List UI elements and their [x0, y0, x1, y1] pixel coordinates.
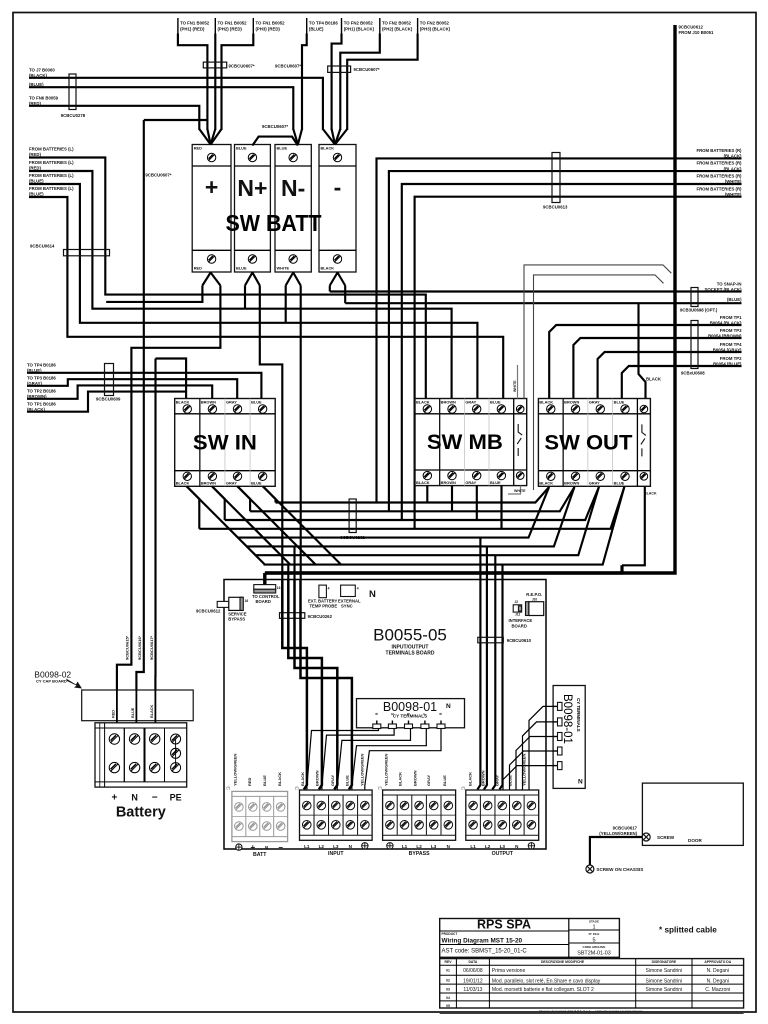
svg-text:FROM BATTERIES (R): FROM BATTERIES (R)	[696, 148, 742, 153]
svg-text:02: 02	[446, 979, 450, 983]
svg-text:BOARD: BOARD	[256, 599, 271, 604]
wire V into module N- top	[293, 129, 298, 145]
wire SW IN bottom terminal 1 to upper bus	[187, 486, 200, 529]
label FROM BATTERIES (L) (BLUE)	[29, 173, 74, 184]
svg-text:RPS SPA: RPS SPA	[477, 918, 531, 932]
wire TO TP4 blue to SW IN	[27, 373, 261, 399]
terminal pin 3 mid B0098-01	[405, 712, 413, 729]
label TO TP1 B0186 BLACK	[27, 401, 56, 412]
svg-text:YELLOW/GREEN: YELLOW/GREEN	[360, 753, 365, 786]
svg-text:GRAY: GRAY	[226, 481, 237, 486]
svg-text:16: 16	[277, 586, 281, 590]
wire module N- bottom-left to bus	[285, 286, 287, 323]
label TO TP4 B0186 BLUE	[27, 362, 56, 373]
wire FROM TP3 to SW OUT	[573, 338, 741, 399]
svg-text:9CBxU0608: 9CBxU0608	[681, 371, 705, 376]
label 9CBCU0617 YELLOW/GREEN	[599, 826, 637, 837]
svg-text:DESCRIZIONE MODIFICHE: DESCRIZIONE MODIFICHE	[541, 960, 585, 964]
wire V from module - bottom	[330, 273, 338, 286]
svg-text:BYPASS: BYPASS	[228, 617, 245, 622]
svg-text:FROM TP4: FROM TP4	[720, 342, 742, 347]
wire battery blue link vertical	[136, 120, 143, 690]
thin aux wire A from SW MB switch column to feeder	[524, 265, 671, 399]
box DOOR	[642, 783, 743, 845]
ferrite 9CBCU0614	[64, 250, 110, 256]
thin aux wire B to feeder	[534, 275, 664, 490]
svg-text:(*): (*)	[378, 786, 381, 790]
svg-text:5: 5	[592, 938, 595, 944]
svg-text:R.E.P.O.: R.E.P.O.	[526, 592, 542, 597]
lower bus l1	[237, 487, 549, 538]
wire SW IN bottom terminal 3 diagonal to lower bus	[237, 486, 315, 564]
svg-text:9CBCU0607*: 9CBCU0607*	[229, 64, 255, 69]
board B0055-05 outline	[224, 580, 546, 850]
svg-text:OUTPUT: OUTPUT	[492, 851, 514, 857]
svg-text:PRODUCT: PRODUCT	[442, 932, 458, 936]
board B0098-02 CY CAP BOARD	[34, 670, 193, 721]
wire output feed 2	[484, 546, 487, 789]
svg-text:N+: N+	[237, 175, 267, 201]
board entry wire 3 from lower bus l2	[293, 546, 295, 579]
connector REPO	[526, 592, 544, 616]
svg-text:BROWN: BROWN	[564, 400, 579, 405]
svg-text:J12: J12	[515, 613, 521, 617]
svg-text:CY TERMINALS: CY TERMINALS	[576, 698, 581, 732]
svg-text:BLACK: BLACK	[644, 492, 657, 496]
svg-text:SW BATT: SW BATT	[226, 210, 322, 236]
ferrite 9CBCU0278	[69, 74, 76, 110]
ferrite 9CBCU0262 vertical	[349, 499, 356, 533]
wire TO TP2 brown to SW IN	[27, 385, 212, 398]
svg-text:04: 04	[446, 996, 450, 1000]
svg-text:YELLOW/GREEN: YELLOW/GREEN	[384, 753, 389, 786]
svg-text:BROWN: BROWN	[201, 400, 216, 405]
connector SERVICE BYPASS	[217, 597, 248, 621]
svg-text:9CBCU0607*: 9CBCU0607*	[354, 67, 380, 72]
svg-text:GRAY: GRAY	[495, 774, 500, 786]
wire output feed 1	[477, 538, 480, 790]
svg-text:C. Mazzoni: C. Mazzoni	[705, 987, 730, 993]
svg-text:APPROVATO DA: APPROVATO DA	[704, 960, 731, 964]
label FROM BATTERIES (L) (BLUE)	[29, 186, 74, 197]
wire SW IN bottom terminal 3 to upper bus	[237, 486, 250, 511]
wire from batteries L blue 1 to SW MB	[29, 184, 477, 399]
svg-text:BROWN: BROWN	[564, 481, 579, 486]
svg-text:CODE ARCHIVE: CODE ARCHIVE	[583, 945, 606, 949]
svg-text:GRAY: GRAY	[330, 774, 335, 786]
svg-text:TO TP4 B0186: TO TP4 B0186	[309, 21, 338, 26]
svg-text:BLACK: BLACK	[150, 704, 154, 718]
label TO J7 B0060 BLACK	[29, 68, 55, 79]
terminal strip BYPASS	[383, 790, 456, 857]
terminal pin 2 right B0098-01	[554, 718, 563, 726]
wire snap-in blue	[345, 302, 741, 304]
svg-text:(BLUE): (BLUE)	[29, 191, 44, 196]
svg-text:DOOR: DOOR	[688, 838, 702, 843]
rotated color labels above BATT strip	[233, 753, 282, 786]
svg-text:RED: RED	[247, 777, 252, 786]
label FROM BATTERIES (L) (RED)	[29, 146, 74, 157]
svg-text:9CBCU0616*: 9CBCU0616*	[137, 635, 142, 660]
svg-text:F: F	[423, 713, 427, 715]
connector TO CONTROL BOARD	[252, 585, 281, 604]
svg-text:RED: RED	[194, 266, 202, 271]
ferrite 9CBCU0613	[552, 153, 560, 203]
svg-text:L2: L2	[416, 844, 422, 849]
svg-text:9CBCU0614: 9CBCU0614	[30, 244, 55, 249]
svg-text:BLUE: BLUE	[277, 146, 288, 151]
svg-text:11/03/13: 11/03/13	[463, 987, 482, 993]
board entry wire 2 from lower bus l4	[287, 565, 289, 580]
svg-text:(YELLOW/GREEN): (YELLOW/GREEN)	[599, 831, 637, 836]
svg-text:BLUE: BLUE	[614, 481, 625, 486]
upper bus u3	[225, 487, 599, 520]
svg-text:9CBCU0610: 9CBCU0610	[507, 638, 532, 643]
svg-text:J10: J10	[532, 597, 538, 601]
svg-text:4: 4	[328, 587, 330, 591]
svg-text:9CBCU0617*: 9CBCU0617*	[149, 635, 154, 660]
svg-text:BLUE: BLUE	[131, 707, 135, 718]
wire output feed 4	[500, 565, 503, 790]
wire SW IN bottom terminal 4 diagonal to lower bus	[263, 486, 341, 564]
wire from batteries L red 1 to SW MB	[29, 158, 426, 399]
svg-text:L2: L2	[485, 844, 491, 849]
svg-text:GRAY: GRAY	[465, 400, 476, 405]
svg-text:19/01/12: 19/01/12	[463, 978, 483, 984]
svg-text:DATA: DATA	[468, 960, 477, 964]
svg-text:N: N	[446, 703, 451, 710]
wire FROM TP2 to SW OUT	[622, 366, 742, 399]
svg-text:9CBCU0615*: 9CBCU0615*	[125, 635, 130, 660]
asterisk marks at strip corners	[227, 786, 465, 790]
svg-text:TO TP4 B0186: TO TP4 B0186	[27, 362, 56, 367]
wire TO FN6 red	[29, 106, 199, 130]
rotated color labels above BYPASS strip	[384, 753, 448, 786]
svg-text:1: 1	[592, 925, 595, 931]
svg-text:BLUE: BLUE	[614, 400, 625, 405]
svg-text:N. Degani: N. Degani	[707, 978, 729, 984]
svg-text:BLUE: BLUE	[490, 400, 501, 405]
svg-text:9CBCU0607*: 9CBCU0607*	[262, 124, 288, 129]
wire module N+ bottom-left to bus	[244, 286, 246, 309]
svg-text:STAGE: STAGE	[589, 920, 599, 924]
breaker block SW MB	[415, 399, 527, 486]
svg-text:TO TP1 B0186: TO TP1 B0186	[27, 401, 56, 406]
wire top label PH3 red	[222, 34, 254, 131]
wire SW IN bottom terminal 2 diagonal to lower bus	[212, 486, 290, 564]
svg-text:BROWN: BROWN	[481, 770, 486, 786]
svg-text:TO FN2 B0052: TO FN2 B0052	[420, 21, 450, 26]
svg-text:BLACK: BLACK	[398, 772, 403, 786]
svg-text:(PH2) (RED): (PH2) (RED)	[218, 27, 243, 32]
terminal pin 4 mid B0098-01	[421, 713, 429, 729]
terminal pin 1 mid B0098-01	[373, 712, 381, 729]
terminal strip BATT	[232, 791, 288, 858]
top destination label TO FN1 B0052 (PH2) (RED)	[215, 18, 247, 34]
svg-text:REV: REV	[445, 960, 453, 964]
svg-text:BLACK: BLACK	[176, 400, 190, 405]
svg-text:YELLOW/GREEN: YELLOW/GREEN	[233, 753, 238, 786]
terminal pin 2 mid B0098-01	[388, 713, 396, 729]
wire TO TP1 black to SW IN	[27, 392, 186, 412]
svg-text:(RED): (RED)	[29, 152, 42, 157]
wire right B0098-01 pin 2 to output column	[523, 722, 554, 790]
svg-text:(BLUE): (BLUE)	[727, 297, 742, 302]
wire right B0098-01 pin 4 to output column	[510, 751, 554, 790]
svg-text:BLACK: BLACK	[468, 772, 473, 786]
svg-text:TO FN1 B0052: TO FN1 B0052	[256, 21, 286, 26]
wire output feed 3	[492, 555, 495, 789]
svg-text:BATT: BATT	[253, 852, 267, 858]
wire module + bottom-left to bus	[106, 286, 202, 302]
wire SW IN bottom terminal 1 diagonal to lower bus	[187, 486, 265, 564]
svg-text:BLACK: BLACK	[416, 400, 430, 405]
svg-text:BROWN: BROWN	[201, 481, 216, 486]
wire board entry 4 to input block	[301, 580, 352, 790]
wire blue	[29, 87, 293, 130]
wire SW MB bottom 1 to upper bus	[426, 486, 428, 503]
battery terminal block	[95, 723, 187, 787]
top destination label TO TP4 B0186 (BLUE)	[307, 18, 339, 34]
wire V into module - top	[323, 129, 335, 145]
svg-text:BLUE: BLUE	[251, 481, 262, 486]
label FROM BATTERIES (R) (WHITE)	[696, 174, 742, 185]
battery polarity labels + N - PE	[111, 793, 181, 804]
breaker block SW IN	[175, 399, 276, 487]
svg-text:N: N	[578, 779, 583, 786]
wire from batteries R 2	[389, 171, 742, 511]
wire labels RED BLUE BLACK in cap board	[112, 704, 155, 718]
svg-text:N. Degani: N. Degani	[707, 968, 729, 974]
ferrite 9CBCU0610	[478, 637, 504, 643]
wire board entry 1 to input block	[282, 580, 307, 790]
wire TO FN2 PH2 black	[340, 34, 380, 131]
svg-text:01: 01	[446, 968, 450, 972]
upper bus u2	[250, 487, 574, 511]
svg-text:BLUE: BLUE	[251, 400, 262, 405]
svg-text:N: N	[131, 793, 138, 803]
wire top label PH1 red	[178, 34, 208, 131]
wire thick feeder into control board connector	[263, 573, 266, 585]
svg-text:Mod. parallelo, slot relé, En.: Mod. parallelo, slot relé, En.Share e ca…	[492, 978, 601, 984]
terminal strip INPUT	[300, 790, 373, 857]
top destination label TO FN2 B0052 (PH3) (BLACK)	[418, 18, 451, 34]
svg-text:9CBCU0612: 9CBCU0612	[196, 609, 221, 614]
svg-text:L3: L3	[333, 844, 339, 849]
svg-text:BROWN: BROWN	[441, 400, 456, 405]
svg-text:TO TP3 B0186: TO TP3 B0186	[27, 375, 56, 380]
svg-text:FROM BATTERIES (L): FROM BATTERIES (L)	[29, 186, 74, 191]
svg-text:Simone Sandrini: Simone Sandrini	[646, 987, 683, 993]
svg-text:TO FN2 B0052: TO FN2 B0052	[382, 21, 412, 26]
label TO TP2 B0186 BROWN	[27, 388, 56, 399]
wire mid B0098-01 pin 3 to input column	[337, 729, 410, 790]
wire board entry 2 to input block	[288, 580, 322, 790]
svg-text:FROM J10 B0051: FROM J10 B0051	[679, 30, 714, 35]
svg-text:L3: L3	[431, 844, 437, 849]
svg-text:BLACK: BLACK	[416, 480, 430, 485]
svg-text:AST code: SBMST_15-20_01-C: AST code: SBMST_15-20_01-C	[442, 949, 528, 955]
svg-text:FROM TP2: FROM TP2	[720, 356, 742, 361]
svg-text:+: +	[205, 174, 218, 200]
svg-text:(PH3) (BLACK): (PH3) (BLACK)	[420, 27, 451, 32]
wire SW IN bottom terminal 4 to upper bus	[263, 486, 276, 502]
top destination label TO FN2 B0052 (PH2) (BLACK)	[380, 18, 413, 34]
wire top label PH2 red	[214, 34, 216, 131]
wire battery red link via 9CBCU0607	[144, 119, 208, 121]
wire TO TP3 gray to SW IN	[27, 379, 237, 398]
svg-text:BLACK: BLACK	[176, 481, 190, 486]
top destination label TO FN1 B0052 (PH3) (RED)	[253, 18, 285, 34]
svg-text:(PH1) (RED): (PH1) (RED)	[180, 27, 205, 32]
svg-text:-: -	[334, 174, 342, 200]
wires through cap board to battery block	[116, 690, 118, 723]
label FROM BATTERIES (R) (BLACK)	[696, 161, 742, 172]
label TO FN6 B0059 RED	[29, 96, 59, 107]
wire TO TP4 blue	[302, 34, 307, 131]
svg-text:TO FN2 B0052: TO FN2 B0052	[344, 21, 374, 26]
wire module + bottom-right to battery red	[117, 286, 220, 691]
label TO SNAP-IN SOCKET BLACK	[705, 281, 743, 292]
svg-text:BLACK: BLACK	[646, 377, 662, 382]
svg-text:SW IN: SW IN	[193, 431, 257, 454]
svg-text:GRAY: GRAY	[426, 774, 431, 786]
terminal strip OUTPUT	[466, 790, 539, 857]
svg-text:(BLUE): (BLUE)	[29, 178, 44, 183]
svg-text:9CBCU0607*: 9CBCU0607*	[275, 64, 301, 69]
svg-text:TO FN1 B0052: TO FN1 B0052	[180, 21, 210, 26]
wire V from module N- bottom	[286, 273, 294, 286]
upper bus u4	[199, 487, 624, 529]
svg-text:(PH3) (RED): (PH3) (RED)	[256, 27, 281, 32]
svg-text:−: −	[278, 843, 283, 852]
label FROM TP3 B0054 (BROWN)	[708, 328, 742, 339]
svg-text:SW MB: SW MB	[427, 431, 503, 454]
ferrite 9CBCU0609	[105, 364, 114, 396]
svg-text:FROM BATTERIES (L): FROM BATTERIES (L)	[29, 173, 74, 178]
svg-text:(*): (*)	[295, 786, 298, 790]
connector EXTERNAL SYNC	[338, 585, 361, 609]
terminal pin 1 right B0098-01	[554, 702, 563, 710]
wire SW OUT extra column to thick bus	[622, 487, 645, 565]
svg-text:L1: L1	[304, 844, 310, 849]
svg-text:(PH2) (BLACK): (PH2) (BLACK)	[382, 27, 413, 32]
svg-text:06/06/08: 06/06/08	[463, 968, 483, 974]
upper bus u1	[276, 487, 550, 503]
svg-text:(*): (*)	[462, 786, 465, 790]
svg-text:BROWN: BROWN	[441, 480, 456, 485]
wire from batteries R 3	[402, 184, 742, 520]
terminal pin 5 right B0098-01	[554, 762, 563, 770]
svg-text:BYPASS: BYPASS	[409, 851, 430, 857]
breaker block SW OUT	[538, 399, 650, 487]
rotated color labels above INPUT strip	[300, 753, 365, 786]
label FROM BATTERIES (R) (WHITE)	[696, 186, 742, 197]
svg-text:Disegno di proprietà della R.P: Disegno di proprietà della R.P.S. S.p.A.…	[539, 1009, 643, 1013]
svg-text:BLUE: BLUE	[442, 775, 447, 786]
label FROM TP1 B0054 (BLACK)	[710, 315, 742, 326]
svg-text:GRAY: GRAY	[465, 480, 476, 485]
wire bridge module N+ to N-	[252, 137, 298, 146]
svg-text:SYNC: SYNC	[341, 604, 353, 609]
svg-text:BLACK: BLACK	[539, 481, 553, 486]
svg-text:9CBCU0617: 9CBCU0617	[613, 826, 638, 831]
svg-text:YELLOW/GREEN: YELLOW/GREEN	[522, 753, 527, 786]
rotated color labels above OUTPUT strip	[468, 753, 527, 786]
svg-text:DISEGNATORE: DISEGNATORE	[652, 960, 677, 964]
wire TO J7 black	[29, 78, 323, 130]
svg-text:BLUE: BLUE	[490, 480, 501, 485]
wire right B0098-01 pin 3 to output column	[516, 737, 554, 790]
board B0098-01 CY terminals mid	[357, 699, 465, 728]
label TO TP3 B0186 GRAY	[27, 375, 56, 386]
svg-text:WHITE: WHITE	[513, 380, 517, 392]
title block RPS SPA	[440, 918, 620, 958]
wire mid B0098-01 pin 2 to input column	[322, 729, 394, 790]
wire right B0098-01 pin 1 to output column	[529, 706, 554, 789]
svg-text:+: +	[111, 793, 117, 804]
svg-text:N° FILE: N° FILE	[589, 932, 600, 936]
svg-text:WHITE: WHITE	[514, 489, 526, 493]
label INTERFACE BOARD	[509, 618, 533, 628]
svg-text:BLUE: BLUE	[236, 266, 247, 271]
wire TO FN2 PH1 black	[332, 34, 342, 131]
lower bus l2	[246, 487, 574, 546]
wire from batteries L red 2 to SW MB	[29, 171, 452, 399]
svg-text:GRAY: GRAY	[589, 400, 600, 405]
svg-text:9CB3U0698 (OPT.): 9CB3U0698 (OPT.)	[680, 308, 718, 313]
label FROM BATTERIES (L) (RED)	[29, 160, 74, 171]
svg-text:SW OUT: SW OUT	[544, 431, 632, 454]
svg-text:BLACK: BLACK	[539, 400, 553, 405]
svg-text:BROWN: BROWN	[413, 770, 418, 786]
svg-text:L2: L2	[319, 844, 325, 849]
svg-text:TO SNAP-IN: TO SNAP-IN	[717, 281, 742, 286]
connector J2 interface	[513, 600, 521, 617]
svg-text:WHITE: WHITE	[277, 266, 290, 271]
wire thick bus under blocks	[266, 565, 623, 573]
wire SW MB bottom 4 to upper bus	[500, 486, 502, 529]
screw on door	[642, 833, 650, 841]
svg-text:Prima versione: Prima versione	[492, 968, 526, 974]
svg-text:03: 03	[446, 987, 450, 991]
svg-text:FROM TP1: FROM TP1	[720, 315, 742, 320]
top destination label TO FN2 B0052 (PH1) (BLACK)	[342, 18, 375, 34]
wire module N+ bottom-right to board entry	[260, 286, 283, 580]
svg-text:B0098-01: B0098-01	[383, 700, 437, 714]
wire from batteries R 4	[415, 197, 742, 529]
svg-text:B0098-01: B0098-01	[561, 694, 573, 744]
svg-text:BLACK: BLACK	[321, 146, 335, 151]
svg-text:FROM BATTERIES (R): FROM BATTERIES (R)	[696, 161, 742, 166]
wire board entry 3 to input block	[295, 580, 338, 790]
svg-text:* splitted cable: * splitted cable	[659, 926, 717, 935]
wire 9CBCU0612 from J10 B0051 thick feeder	[265, 25, 675, 573]
wire mid B0098-01 pin 1 to input column	[307, 729, 379, 790]
svg-text:TO FN1 B0052: TO FN1 B0052	[218, 21, 248, 26]
svg-text:SCREW: SCREW	[657, 835, 675, 840]
svg-text:J2: J2	[515, 600, 519, 604]
wire FROM TP4 to SW OUT	[598, 352, 742, 399]
board B0098-01 CY terminals right	[553, 686, 585, 789]
wire FROM TP1 to SW OUT	[549, 325, 741, 399]
svg-text:BLACK: BLACK	[300, 772, 305, 786]
revision table	[440, 959, 744, 1014]
ferrite 9CBCU0698	[691, 288, 698, 307]
svg-text:(RED): (RED)	[29, 165, 42, 170]
wire module - bottom-left to snap-in black	[329, 286, 331, 292]
ferrite 9CBCU0607 on red wires	[203, 62, 226, 68]
